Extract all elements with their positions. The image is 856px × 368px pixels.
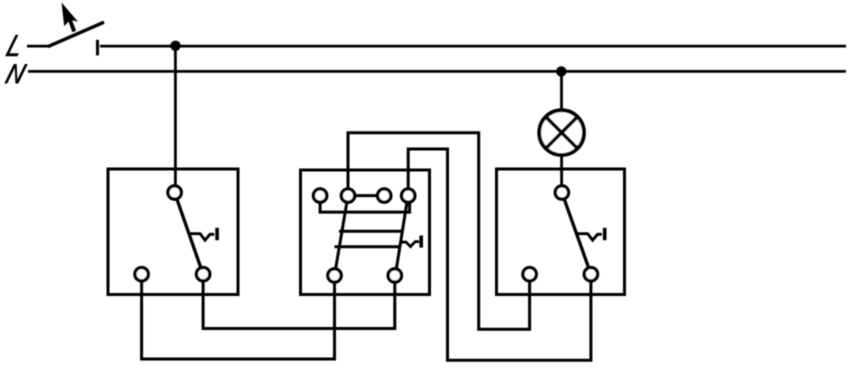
S2 terminal bottom-right bbox=[388, 269, 401, 282]
wire from L node down to switch S1 bbox=[174, 46, 177, 192]
S2 terminal bottom-left bbox=[328, 269, 341, 282]
wire S1 bottom-right to S2 bottom-right bbox=[203, 274, 395, 328]
S2 terminal 1 bbox=[313, 189, 326, 202]
wire L lead-in bbox=[27, 45, 50, 48]
wire S1 bottom-left to S2 bottom-left bbox=[142, 274, 335, 359]
junction node on L rail bbox=[170, 41, 180, 51]
S2 link bar terminals 2-3 bbox=[348, 194, 384, 197]
S1 terminal bottom-left bbox=[135, 268, 148, 281]
wire from N node down to lamp bbox=[560, 71, 563, 115]
L label bbox=[5, 35, 19, 56]
S2 outer bracket terminals 1-4 bbox=[320, 196, 410, 213]
S2 terminal 4 bbox=[402, 189, 415, 202]
disconnect switch contact tick bbox=[96, 40, 99, 56]
L rail wire bbox=[100, 45, 846, 48]
S1 rocker actuator bbox=[189, 228, 217, 240]
S2 terminal 3 bbox=[378, 189, 391, 202]
S1 common terminal bbox=[168, 186, 181, 199]
S2 bridge rung upper bbox=[339, 230, 403, 233]
wire S2 terminal 2 to S3 bottom-left bbox=[348, 133, 530, 329]
actuation arrow bbox=[62, 3, 79, 33]
two-way switch S1 box bbox=[108, 169, 238, 295]
junction node on N rail bbox=[556, 66, 566, 76]
S1 switch blade bbox=[175, 193, 204, 275]
S2 right bridge diagonal bbox=[395, 196, 408, 276]
S1 terminal bottom-right bbox=[196, 268, 209, 281]
lamp E1 bbox=[539, 110, 584, 155]
disconnect switch blade bbox=[48, 22, 104, 46]
N rail wire bbox=[28, 70, 846, 73]
wire S2 terminal 4 to S3 bottom-right bbox=[408, 149, 591, 360]
S3 terminal bottom-left bbox=[523, 268, 536, 281]
S2 left bridge diagonal bbox=[335, 196, 349, 276]
S3 switch blade bbox=[562, 193, 591, 275]
N label bbox=[4, 64, 28, 84]
S3 common terminal bbox=[555, 186, 568, 199]
intermediate switch S2 box bbox=[301, 170, 430, 295]
S2 terminal 2 bbox=[341, 189, 354, 202]
wire from lamp down to switch S3 bbox=[560, 152, 563, 193]
two-way switch S3 box bbox=[497, 169, 625, 295]
S2 rocker actuator bbox=[400, 236, 422, 248]
S3 rocker actuator bbox=[577, 228, 605, 240]
S3 terminal bottom-right bbox=[584, 268, 597, 281]
S2 bridge rung lower bbox=[335, 245, 400, 248]
